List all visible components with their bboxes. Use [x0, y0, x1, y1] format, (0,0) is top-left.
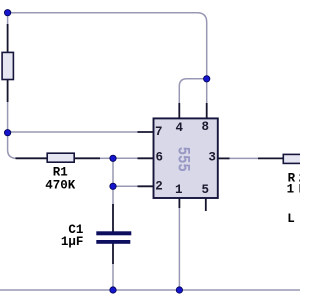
svg-text:5: 5 — [202, 183, 210, 197]
svg-text:1: 1 — [175, 183, 183, 197]
svg-text:K: K — [299, 183, 300, 197]
svg-text:7: 7 — [155, 125, 163, 139]
svg-text:1: 1 — [287, 183, 295, 197]
svg-text:6: 6 — [156, 151, 164, 165]
svg-text:3: 3 — [208, 151, 216, 165]
svg-text:2: 2 — [155, 180, 163, 194]
svg-text:555: 555 — [173, 147, 193, 172]
svg-text:8: 8 — [202, 120, 210, 134]
svg-text:L: L — [287, 212, 295, 226]
svg-text:470K: 470K — [45, 178, 76, 192]
svg-text:4: 4 — [176, 121, 184, 135]
svg-text:1µF: 1µF — [61, 235, 84, 249]
